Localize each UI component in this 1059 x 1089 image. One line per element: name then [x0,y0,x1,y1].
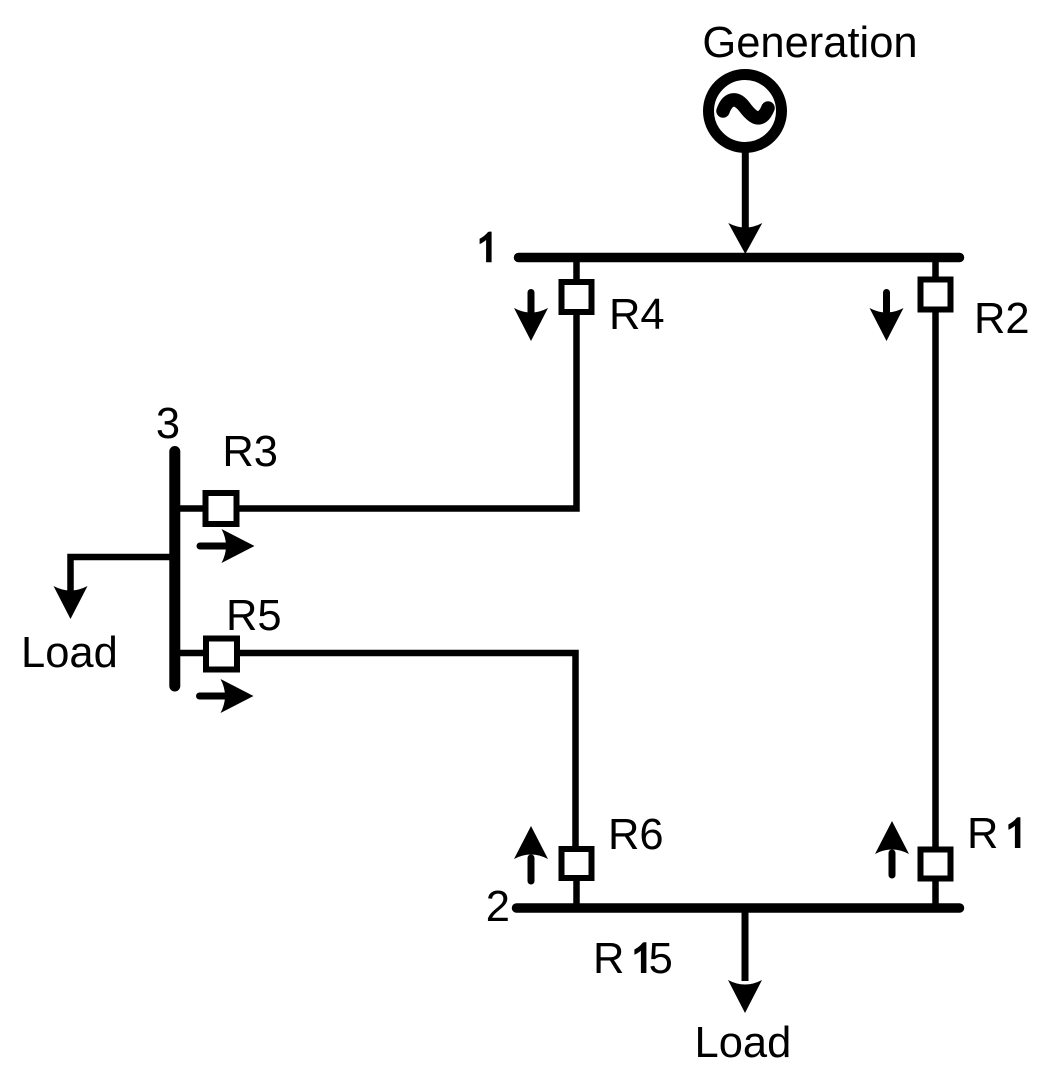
svg-text:R5: R5 [226,592,282,640]
arrowhead load bottom [728,980,762,1013]
svg-text:R: R [593,935,624,983]
svg-text:R2: R2 [974,295,1030,343]
node 1 label [480,232,492,263]
wire bus 2 to load (bottom) [742,909,749,981]
arrow up near R1 [875,821,909,875]
svg-text:Load: Load [695,1019,792,1067]
arrow down near R2 [870,293,904,342]
arrow right near R3 [200,529,255,563]
wire relay R2 to relay R1 (line 1-2) [932,310,939,850]
svg-text:3: 3 [156,400,180,448]
svg-text:R3: R3 [222,428,278,476]
svg-text:R: R [967,810,998,858]
wire generator to bus 1 [742,148,749,228]
generator G1 sine wave [723,100,768,118]
svg-text:R6: R6 [608,811,664,859]
arrow down near R4 [514,293,548,342]
relay R3 square [206,493,237,524]
svg-text:2: 2 [486,883,510,931]
wire relay R1 to bus 2 [932,880,939,909]
relay R4 square [562,282,592,312]
relay R1 square [921,850,951,879]
wire bus 1 to relay R4 [573,258,580,281]
svg-text:5: 5 [649,935,673,983]
wire bus 3 to load (left) [71,557,176,593]
bus 2 [517,903,960,913]
wire relay R6 to bus 2 [573,880,580,909]
relay R2 square [921,280,951,310]
arrow up near R6 [514,826,548,881]
arrowhead load left [54,586,88,619]
svg-text:Load: Load [21,629,118,677]
arrow right near R5 [200,679,254,713]
arrowhead generation into bus 1 [728,223,762,254]
bus 3 [169,452,180,687]
wire relay R4 to relay R3 (line 1-3) [175,313,577,509]
svg-text:Generation: Generation [702,19,917,67]
svg-text:R4: R4 [609,291,665,339]
relay R6 square [562,849,592,878]
wire relay R5 to relay R6 (line 3-2) [175,653,576,847]
generator G1 (AC source circle) [709,75,782,148]
relay R5 square [206,639,237,670]
bus 1 [519,253,960,263]
wire bus 1 to relay R2 [932,258,939,279]
